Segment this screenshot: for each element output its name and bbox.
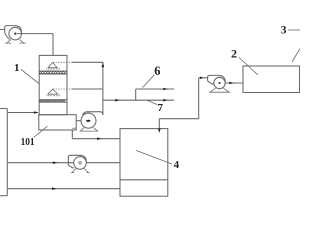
svg-text:1: 1 bbox=[14, 62, 20, 74]
svg-text:6: 6 bbox=[154, 64, 160, 78]
svg-text:4: 4 bbox=[174, 159, 180, 171]
svg-text:101: 101 bbox=[21, 137, 35, 148]
svg-text:2: 2 bbox=[231, 46, 237, 60]
svg-text:7: 7 bbox=[158, 102, 164, 114]
svg-text:3: 3 bbox=[281, 25, 287, 37]
